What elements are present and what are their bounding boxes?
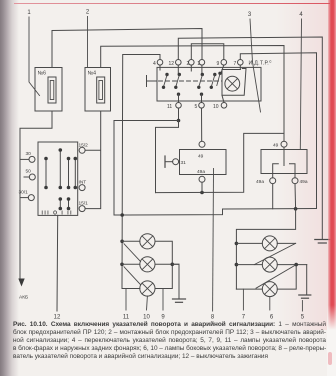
svg-text:11: 11 bbox=[167, 104, 172, 110]
ground left lamps bbox=[173, 299, 186, 302]
lamp 5 right bottom bbox=[262, 282, 277, 297]
lamp 10 left middle bbox=[140, 257, 155, 272]
ignition position labels III O I II bbox=[42, 211, 73, 217]
fuse block N6 bbox=[35, 68, 62, 112]
svg-text:30: 30 bbox=[26, 151, 32, 157]
hazard switch box right bbox=[261, 150, 307, 174]
svg-text:15/2: 15/2 bbox=[79, 143, 89, 149]
svg-text:№4: №4 bbox=[88, 71, 97, 77]
svg-text:2: 2 bbox=[86, 10, 90, 16]
svg-text:№6: №6 bbox=[38, 71, 47, 77]
terminal 15/1 bbox=[79, 201, 89, 212]
wire terminal 7 to right bus bbox=[240, 53, 316, 209]
pilot lamp enclosure bbox=[222, 69, 246, 103]
turn signal / hazard switch unit 3 box bbox=[157, 67, 261, 101]
svg-text:7: 7 bbox=[234, 61, 237, 67]
callout 2 bbox=[86, 10, 90, 68]
terminal 9 of switch bbox=[217, 60, 227, 74]
svg-text:1: 1 bbox=[197, 61, 200, 67]
switch contact unit e bbox=[217, 72, 222, 86]
ignition contact column a bbox=[44, 157, 48, 190]
wire fuse N4 to terminals 15/2 15/1 bbox=[85, 111, 101, 209]
right lamp feed wire bbox=[235, 209, 296, 289]
svg-text:15/1: 15/1 bbox=[79, 201, 89, 207]
svg-text:9: 9 bbox=[217, 61, 220, 67]
lamp 9 left bottom bbox=[140, 281, 155, 296]
svg-text:1: 1 bbox=[27, 10, 31, 16]
relay terminal 31 bbox=[165, 156, 186, 167]
relay terminal 49a bbox=[199, 176, 205, 192]
svg-text:4: 4 bbox=[299, 12, 303, 18]
terminal 7 of switch bbox=[234, 60, 244, 70]
ground right lamps bbox=[299, 295, 311, 298]
callout 4 bbox=[299, 12, 303, 149]
left lamp row wires bbox=[122, 241, 179, 298]
svg-text:31: 31 bbox=[181, 160, 187, 166]
leader 10 bbox=[143, 296, 150, 320]
terminal 15/2 bbox=[79, 143, 89, 154]
wire fuse N6 to terminal 1 bbox=[52, 29, 202, 68]
svg-text:АКБ: АКБ bbox=[19, 295, 28, 301]
terminal INT bbox=[79, 180, 87, 191]
wire fuse N6 to ignition switch and battery bbox=[20, 111, 52, 279]
wire terminal 12 to right ground bbox=[178, 37, 322, 239]
hazard switch contacts bbox=[273, 164, 295, 178]
fuse block N4 bbox=[85, 68, 111, 112]
svg-text:3: 3 bbox=[248, 12, 252, 18]
terminal 50 bbox=[24, 169, 35, 181]
lamp 7 right top bbox=[262, 236, 277, 251]
hazard switch terminal 49 bbox=[273, 141, 287, 165]
lamp 11 left top bbox=[140, 234, 155, 249]
terminal 30 bbox=[20, 151, 35, 162]
callout 1 bbox=[27, 10, 39, 96]
switch contact unit a bbox=[160, 65, 169, 89]
wire fuse N4 to terminal 49 bbox=[101, 46, 284, 142]
wire terminal 4 to left lamps bbox=[122, 55, 160, 289]
battery arrow AKB bbox=[18, 279, 28, 301]
leader 9 bbox=[161, 289, 165, 321]
terminal 2 of switch bbox=[187, 60, 195, 72]
switch contact unit c bbox=[197, 73, 204, 103]
IDTR trademark text bbox=[249, 60, 272, 67]
relay bus wire bbox=[156, 133, 285, 194]
svg-text:10: 10 bbox=[213, 104, 219, 110]
svg-text:49а: 49а bbox=[197, 169, 205, 175]
terminal 30/1 bbox=[19, 190, 35, 201]
wire junction 11 to relay bus bbox=[156, 121, 179, 193]
svg-text:5: 5 bbox=[195, 104, 198, 110]
ignition contact column b bbox=[59, 148, 63, 210]
terminal 12 of switch bbox=[169, 60, 182, 75]
wire junction 11 to left vertical bbox=[114, 121, 179, 216]
leader 6 bbox=[270, 297, 274, 321]
ignition contact column d bbox=[74, 157, 78, 190]
right lamp row wires bbox=[236, 243, 306, 294]
switch contact unit b bbox=[174, 73, 181, 103]
right lamp diagonals bbox=[254, 243, 296, 288]
left vertical lamp feed dots bbox=[120, 240, 124, 267]
wire terminal 2 to terminal 9 bbox=[191, 44, 224, 60]
leader 7 bbox=[242, 289, 246, 320]
svg-text:49а: 49а bbox=[300, 179, 308, 185]
svg-text:49: 49 bbox=[273, 143, 279, 149]
lamp 6 right middle bbox=[262, 257, 277, 272]
svg-text:INT: INT bbox=[79, 180, 87, 186]
wire switch 5 to relay 49 bbox=[201, 108, 203, 141]
hazard switch terminal 49a left bbox=[256, 178, 276, 209]
terminal 4 of switch bbox=[153, 60, 163, 67]
svg-text:49а: 49а bbox=[256, 179, 264, 185]
svg-text:49: 49 bbox=[198, 154, 204, 160]
svg-text:50: 50 bbox=[26, 169, 32, 175]
callout 3 bbox=[248, 12, 261, 112]
left lamp diagonals bbox=[124, 244, 141, 285]
leader 12 bbox=[54, 215, 61, 320]
wire terminal 11 junction bbox=[177, 108, 181, 122]
ground right upper bbox=[315, 240, 330, 244]
relay terminal 49 bbox=[199, 141, 205, 147]
ignition contact column c bbox=[67, 157, 71, 211]
svg-text:2: 2 bbox=[187, 61, 190, 67]
lower distribution bus bbox=[114, 207, 317, 217]
switch link bar bbox=[147, 76, 223, 87]
svg-text:4: 4 bbox=[153, 61, 156, 67]
terminal 1 of switch bbox=[197, 60, 204, 75]
terminal 5 of switch bbox=[195, 103, 205, 110]
ignition switch 12 box bbox=[38, 142, 78, 215]
hazard switch terminal 49a right bbox=[292, 178, 308, 209]
svg-text:И.Д.Т.Р.©: И.Д.Т.Р.© bbox=[249, 60, 272, 67]
relay 8 box bbox=[180, 150, 227, 176]
leader 8 bbox=[211, 169, 215, 321]
leader 11 bbox=[123, 289, 130, 321]
switch contact unit d bbox=[210, 73, 217, 89]
terminal 11 of switch bbox=[167, 103, 181, 110]
svg-text:12: 12 bbox=[169, 61, 175, 67]
terminal 10 of switch bbox=[213, 103, 227, 110]
pilot lamp bbox=[225, 76, 240, 91]
leader 5 bbox=[301, 301, 305, 321]
